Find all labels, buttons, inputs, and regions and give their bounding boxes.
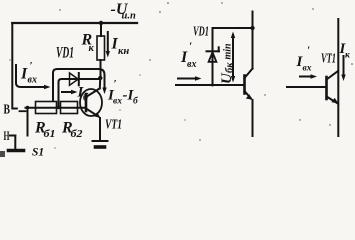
svg-text:б2: б2 — [71, 129, 84, 140]
svg-text:VD1: VD1 — [193, 25, 209, 40]
svg-text:′: ′ — [30, 60, 33, 72]
svg-text:′: ′ — [189, 41, 192, 53]
svg-text:В: В — [4, 103, 11, 118]
svg-text:S1: S1 — [32, 147, 44, 158]
svg-text:VT1: VT1 — [105, 118, 122, 133]
svg-text:и.п: и.п — [122, 11, 136, 22]
svg-text:бк: бк — [225, 62, 236, 73]
svg-text:VD1: VD1 — [56, 45, 74, 62]
svg-text:вх: вх — [303, 64, 312, 74]
svg-text:к: к — [89, 43, 95, 54]
svg-text:вх: вх — [187, 59, 196, 70]
svg-text:б1: б1 — [44, 129, 56, 140]
svg-text:min: min — [223, 43, 234, 60]
svg-text:VT1: VT1 — [321, 51, 336, 66]
svg-text:вх: вх — [113, 97, 122, 107]
svg-text:′: ′ — [307, 45, 310, 57]
svg-text:вх: вх — [28, 75, 37, 86]
svg-text:Н: Н — [4, 128, 10, 143]
svg-text:кн: кн — [118, 46, 129, 57]
svg-text:′: ′ — [114, 78, 117, 90]
